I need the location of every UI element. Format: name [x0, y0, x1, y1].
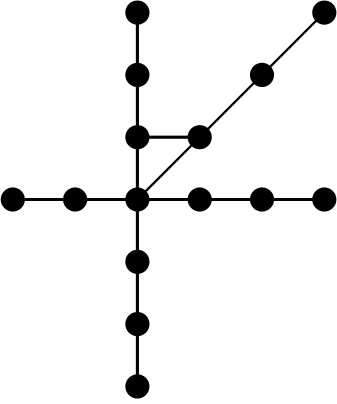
node H5 (right end of horizontal chain): [312, 187, 336, 211]
wire horizontal H2-C: [75, 198, 137, 201]
node V4: [125, 250, 149, 274]
node D3 (top-right end of diagonal): [312, 1, 336, 25]
wire vertical C-V4: [136, 200, 139, 262]
node V6 (bottom of vertical chain): [125, 374, 149, 398]
node H4: [250, 187, 274, 211]
wire diagonal D2-D3: [262, 13, 324, 75]
wire vertical V1-V2: [136, 13, 139, 75]
node D2 (diagonal branch): [250, 63, 274, 87]
node D1 (diagonal branch): [188, 125, 212, 149]
node V5: [125, 312, 149, 336]
wire diagonal D1-D2: [200, 75, 262, 137]
wire vertical V3-C: [136, 137, 139, 199]
wire diagonal C-D1: [137, 137, 199, 199]
node V2: [125, 63, 149, 87]
wire horizontal C-H3: [137, 198, 199, 201]
wire vertical V4-V5: [136, 262, 139, 324]
wire vertical V5-V6: [136, 324, 139, 386]
node H1 (left end of horizontal chain): [1, 187, 25, 211]
wire horizontal H3-H4: [200, 198, 262, 201]
node V1 (top of vertical chain): [125, 1, 149, 25]
node H2: [63, 187, 87, 211]
wire horizontal H1-H2: [13, 198, 75, 201]
wire horizontal V3-D1: [137, 136, 199, 139]
wire horizontal H4-H5: [262, 198, 324, 201]
node H3: [188, 187, 212, 211]
node C (center junction): [125, 187, 149, 211]
node V3: [125, 125, 149, 149]
wire vertical V2-V3: [136, 75, 139, 137]
